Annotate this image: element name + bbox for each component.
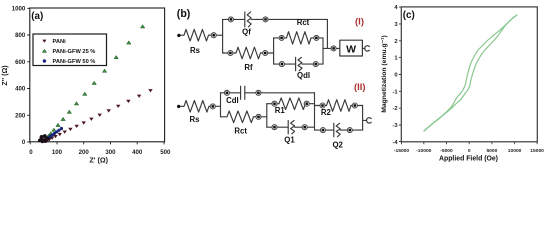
svg-text:(a): (a) bbox=[31, 11, 43, 22]
wire R1 branch left bbox=[267, 103, 279, 105]
svg-text:0: 0 bbox=[468, 148, 471, 154]
wire Rct to block3 bbox=[254, 116, 267, 118]
wire R1 right bbox=[306, 103, 315, 105]
node Rct right (II) bbox=[256, 114, 261, 119]
x ticks bbox=[30, 142, 164, 145]
resistor Rs (II) bbox=[184, 101, 209, 113]
svg-text:-1: -1 bbox=[392, 89, 398, 95]
svg-text:R2: R2 bbox=[321, 108, 332, 117]
block3 left vertical bbox=[266, 104, 268, 128]
svg-text:200: 200 bbox=[79, 149, 90, 156]
node Q1 left bbox=[272, 125, 277, 130]
svg-text:PANi: PANi bbox=[53, 39, 67, 45]
svg-text:Applied Field (Oe): Applied Field (Oe) bbox=[439, 155, 498, 162]
wire block2 to W bbox=[323, 47, 340, 49]
resistor Rct (II) bbox=[227, 111, 254, 123]
wire bottom branch left (I) bbox=[223, 52, 236, 54]
wire Rs to split II bbox=[209, 105, 221, 107]
svg-text:PANi-GFW 25 %: PANi-GFW 25 % bbox=[53, 49, 96, 55]
x ticks bbox=[402, 142, 538, 144]
plot box bbox=[401, 7, 537, 142]
svg-text:(II): (II) bbox=[354, 82, 366, 93]
blue series PANi-GFW 50% bbox=[44, 127, 63, 141]
svg-text:2: 2 bbox=[394, 39, 397, 45]
legend bbox=[33, 34, 107, 66]
right outer vertical (I) bbox=[326, 19, 328, 48]
right open terminal (II) bbox=[367, 118, 372, 123]
left split vertical (I) bbox=[222, 19, 224, 53]
svg-text:Z'' (Ω): Z'' (Ω) bbox=[0, 65, 9, 86]
svg-text:-5000: -5000 bbox=[440, 148, 453, 154]
capacitor Cdl bbox=[241, 86, 245, 99]
dense origin cluster bbox=[38, 134, 50, 143]
svg-text:Cdl: Cdl bbox=[226, 96, 239, 105]
node Rct right (I) bbox=[314, 35, 319, 40]
wire Rs to split bbox=[209, 34, 223, 36]
node after Rs (II) bbox=[210, 104, 215, 109]
node Rf left bbox=[228, 51, 233, 56]
wire Cdl branch right bbox=[245, 92, 315, 94]
wire Q1 branch left bbox=[267, 126, 288, 128]
right open terminal (I) bbox=[365, 46, 370, 51]
svg-text:W: W bbox=[346, 43, 356, 55]
y tick labels bbox=[12, 5, 26, 146]
resistor Rf bbox=[236, 47, 261, 59]
node R2 left bbox=[320, 103, 325, 108]
green series PANi-GFW 25% bbox=[45, 25, 145, 140]
svg-text:Qf: Qf bbox=[242, 27, 251, 36]
long junction vertical (II) bbox=[314, 93, 316, 130]
svg-text:400: 400 bbox=[132, 149, 143, 156]
x tick labels bbox=[29, 149, 171, 156]
CPE Q2 bbox=[334, 123, 340, 137]
node Qdl left bbox=[279, 62, 284, 67]
wire R2 branch left bbox=[315, 105, 327, 107]
svg-text:500: 500 bbox=[160, 149, 171, 156]
svg-text:10000: 10000 bbox=[508, 148, 522, 154]
node Q2 right bbox=[347, 128, 352, 133]
wire Qdl right bbox=[302, 63, 323, 65]
wire Rct branch (II) bbox=[221, 116, 228, 118]
svg-text:(I): (I) bbox=[355, 17, 364, 28]
CPE Q1 bbox=[288, 121, 294, 134]
y ticks bbox=[399, 7, 401, 141]
svg-text:1000: 1000 bbox=[12, 5, 26, 12]
CPE Qdl bbox=[296, 57, 302, 71]
node Rf right bbox=[263, 51, 268, 56]
node Q2 left bbox=[320, 128, 325, 133]
maroon series PANi bbox=[45, 89, 153, 142]
svg-text:(b): (b) bbox=[177, 8, 191, 20]
wire R2 right bbox=[351, 105, 363, 107]
svg-text:(c): (c) bbox=[403, 10, 415, 21]
svg-text:Rs: Rs bbox=[190, 115, 201, 124]
wire terminal to Rs II bbox=[180, 105, 184, 107]
hysteresis loop bbox=[424, 15, 517, 131]
terminal left II bbox=[177, 105, 180, 108]
node after Rs (I) bbox=[211, 33, 216, 38]
y tick labels bbox=[392, 5, 398, 146]
svg-text:600: 600 bbox=[15, 59, 26, 66]
svg-text:0: 0 bbox=[394, 73, 397, 79]
svg-text:R1: R1 bbox=[275, 106, 286, 115]
resistor Rs (I) bbox=[184, 29, 209, 41]
x tick labels bbox=[394, 148, 544, 154]
node R1 right bbox=[304, 101, 309, 106]
wire Q2 branch left bbox=[315, 129, 334, 131]
svg-text:Rct: Rct bbox=[234, 126, 247, 135]
svg-text:Q1: Q1 bbox=[284, 135, 295, 144]
resistor R1 bbox=[279, 98, 306, 110]
node Qf right bbox=[263, 17, 268, 22]
left split vertical (II) bbox=[220, 93, 222, 117]
svg-text:800: 800 bbox=[15, 32, 26, 39]
svg-text:0: 0 bbox=[22, 139, 26, 146]
svg-text:Rct: Rct bbox=[297, 18, 310, 27]
svg-text:-15000: -15000 bbox=[394, 148, 410, 154]
block2 right vertical bbox=[322, 38, 324, 64]
node Qf left bbox=[228, 17, 233, 22]
svg-text:-10000: -10000 bbox=[416, 148, 432, 154]
node R1 left bbox=[272, 101, 277, 106]
wire Rf to block2 bbox=[261, 52, 274, 54]
svg-text:Z' (Ω): Z' (Ω) bbox=[89, 156, 108, 165]
svg-text:-2: -2 bbox=[392, 106, 397, 112]
wire Qdl branch left bbox=[274, 63, 296, 65]
svg-text:-3: -3 bbox=[392, 123, 398, 129]
wire to right terminal (II) bbox=[363, 119, 367, 121]
resistor Rct (I) bbox=[287, 32, 312, 44]
wire W to terminal bbox=[362, 47, 364, 49]
wire Rct right (I) bbox=[311, 37, 323, 39]
svg-text:5000: 5000 bbox=[486, 148, 497, 154]
wire Q1 right bbox=[295, 126, 315, 128]
wire Rct branch left bbox=[274, 37, 287, 39]
node Q1 right bbox=[302, 125, 307, 130]
svg-text:15000: 15000 bbox=[530, 148, 544, 154]
wire Cdl branch left bbox=[221, 92, 241, 94]
node R2 right bbox=[352, 103, 357, 108]
resistor R2 bbox=[327, 100, 352, 112]
block2 left vertical bbox=[273, 38, 275, 64]
block4 right vertical bbox=[362, 106, 364, 131]
svg-text:Q2: Q2 bbox=[332, 141, 343, 150]
svg-text:Rs: Rs bbox=[190, 46, 201, 55]
terminal left I bbox=[177, 34, 180, 37]
node Cdl right bbox=[256, 90, 261, 95]
svg-text:400: 400 bbox=[15, 86, 26, 93]
svg-text:100: 100 bbox=[52, 149, 63, 156]
svg-text:-4: -4 bbox=[392, 140, 398, 146]
CPE Qf bbox=[245, 12, 251, 27]
svg-text:Qdl: Qdl bbox=[297, 71, 310, 80]
wire Q2 right bbox=[340, 129, 362, 131]
node Qdl right bbox=[313, 62, 318, 67]
node before W bbox=[331, 46, 336, 51]
svg-text:Magnetization (emu.g⁻¹): Magnetization (emu.g⁻¹) bbox=[381, 35, 388, 113]
svg-text:Rf: Rf bbox=[244, 63, 253, 72]
wire terminal to Rs bbox=[181, 34, 185, 36]
svg-text:200: 200 bbox=[15, 112, 26, 119]
svg-text:PANi-GFW 50 %: PANi-GFW 50 % bbox=[53, 59, 96, 65]
wire top branch right (I) bbox=[251, 18, 327, 20]
node Cdl left bbox=[224, 90, 229, 95]
node Rct left (I) bbox=[279, 35, 284, 40]
wire top branch left (I) bbox=[223, 18, 245, 20]
plot box bbox=[30, 8, 165, 142]
y ticks bbox=[27, 8, 30, 142]
Warburg element W bbox=[340, 40, 363, 56]
